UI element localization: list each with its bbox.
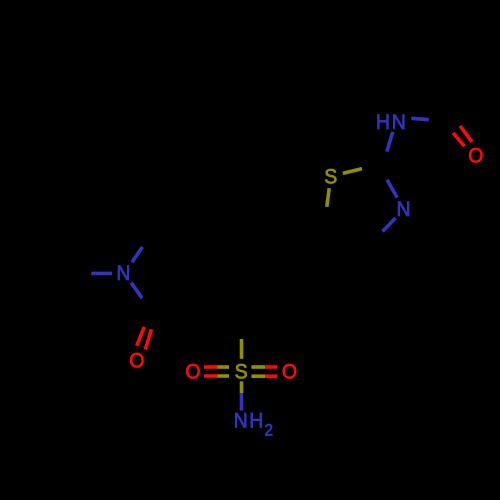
svg-text:N: N bbox=[396, 198, 410, 221]
svg-text:O: O bbox=[282, 361, 297, 384]
svg-text:O: O bbox=[129, 350, 144, 373]
svg-text:N: N bbox=[116, 263, 130, 286]
svg-text:O: O bbox=[468, 145, 483, 168]
svg-text:N: N bbox=[392, 112, 406, 135]
svg-text:2: 2 bbox=[265, 422, 274, 440]
svg-text:O: O bbox=[185, 361, 200, 384]
svg-text:N: N bbox=[234, 410, 248, 433]
svg-text:H: H bbox=[376, 112, 390, 135]
svg-text:S: S bbox=[324, 166, 337, 189]
svg-text:H: H bbox=[249, 410, 263, 433]
svg-text:S: S bbox=[235, 361, 248, 384]
